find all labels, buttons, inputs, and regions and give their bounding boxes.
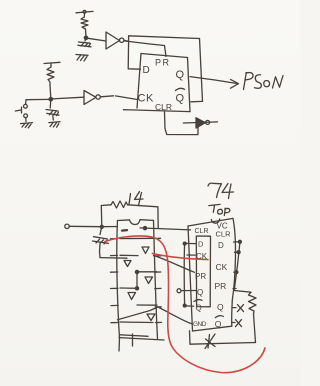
svg-text:CK: CK [196, 252, 208, 261]
svg-text:D: D [218, 241, 224, 250]
svg-text:CK: CK [216, 262, 228, 272]
svg-text:Q: Q [176, 93, 185, 105]
svg-text:PR: PR [215, 281, 227, 291]
svg-text:PR: PR [195, 272, 206, 281]
svg-text:CK: CK [138, 93, 154, 105]
svg-text:D: D [143, 65, 150, 76]
svg-text:Q: Q [176, 69, 185, 81]
svg-text:CLR: CLR [155, 102, 172, 112]
svg-text:Q: Q [197, 288, 203, 297]
svg-text:D: D [198, 240, 204, 249]
svg-text:CLR: CLR [195, 228, 209, 235]
svg-text:Q: Q [217, 302, 224, 312]
svg-text:PR: PR [155, 58, 171, 68]
svg-text:GND: GND [193, 321, 207, 328]
svg-text:Q: Q [196, 304, 202, 313]
svg-text:Q: Q [215, 319, 222, 329]
svg-text:CLR: CLR [216, 230, 232, 239]
